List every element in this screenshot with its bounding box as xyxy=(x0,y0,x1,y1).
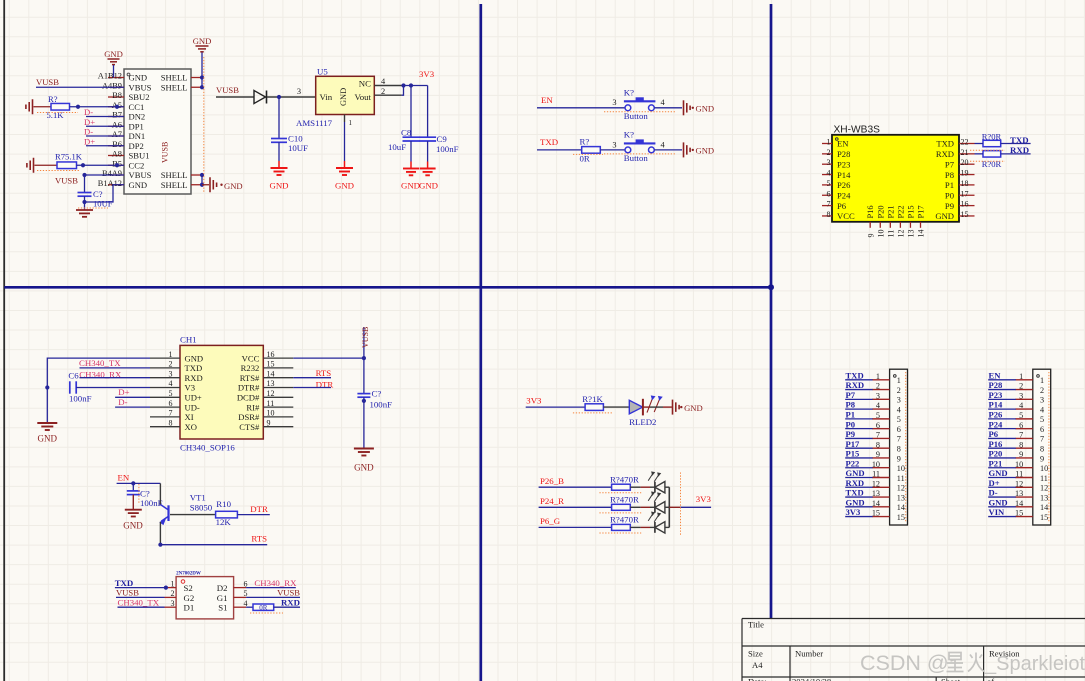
svg-text:GND: GND xyxy=(935,211,954,221)
svg-text:P1: P1 xyxy=(846,409,856,419)
ground below C10 xyxy=(278,161,280,168)
svg-text:P8: P8 xyxy=(945,170,954,180)
svg-text:P0: P0 xyxy=(846,419,856,429)
svg-text:EN: EN xyxy=(837,139,849,149)
svg-text:Number: Number xyxy=(795,649,823,659)
svg-text:P8: P8 xyxy=(846,400,856,410)
svg-text:8: 8 xyxy=(1019,440,1023,449)
transistor VT1 S8050 xyxy=(159,483,161,505)
svg-text:RXD: RXD xyxy=(936,149,954,159)
svg-text:12: 12 xyxy=(1015,479,1023,488)
wire SHELL top xyxy=(201,53,203,88)
connector P? header right body xyxy=(1033,369,1051,525)
svg-text:RLED2: RLED2 xyxy=(629,417,656,427)
svg-text:2: 2 xyxy=(171,589,175,598)
section divider horizontal xyxy=(4,286,771,289)
svg-text:GND: GND xyxy=(129,180,148,190)
svg-text:3V3: 3V3 xyxy=(846,507,861,517)
svg-text:P0: P0 xyxy=(945,190,954,200)
capacitor C10 10UF xyxy=(278,97,280,139)
svg-text:VIN: VIN xyxy=(989,507,1006,517)
svg-text:10: 10 xyxy=(267,409,275,418)
svg-text:16: 16 xyxy=(961,200,969,209)
compile marker under R?1K xyxy=(573,412,613,414)
wire base to R10 xyxy=(170,514,216,516)
svg-text:16: 16 xyxy=(267,350,275,359)
svg-text:VT1: VT1 xyxy=(190,493,206,503)
svg-text:D-: D- xyxy=(118,397,127,407)
capacitor C6 100nF xyxy=(69,381,71,393)
wire 3V3 to R? xyxy=(526,406,585,408)
svg-text:VBUS: VBUS xyxy=(129,170,152,180)
svg-text:3: 3 xyxy=(612,98,616,107)
svg-text:100nF: 100nF xyxy=(69,394,92,404)
svg-text:P14: P14 xyxy=(989,400,1004,410)
svg-text:P9: P9 xyxy=(945,201,954,211)
svg-text:D-: D- xyxy=(989,488,998,498)
wire D- to DN2 xyxy=(86,116,124,118)
connector P? header left body xyxy=(890,369,908,525)
svg-text:U5: U5 xyxy=(317,67,328,77)
LED common bus xyxy=(668,487,670,527)
svg-text:TXD: TXD xyxy=(846,370,864,380)
svg-text:K?: K? xyxy=(624,130,634,140)
svg-text:CH340_SOP16: CH340_SOP16 xyxy=(180,442,235,452)
svg-text:P22: P22 xyxy=(846,458,860,468)
wire U5 GND down xyxy=(344,122,346,161)
wire emitter to RTS xyxy=(160,544,267,546)
svg-text:DP1: DP1 xyxy=(129,121,144,131)
svg-text:GND: GND xyxy=(339,88,348,106)
ground below U5 xyxy=(344,161,346,168)
svg-text:G2: G2 xyxy=(184,593,195,603)
wire P24_R to resistor xyxy=(539,506,612,508)
svg-text:TXD: TXD xyxy=(540,137,558,147)
svg-text:P28: P28 xyxy=(989,380,1004,390)
LED (RGB) xyxy=(654,482,656,493)
Q? right pins 4-6 xyxy=(234,587,247,589)
svg-text:11: 11 xyxy=(267,399,275,408)
wire RTS# pin xyxy=(293,377,331,379)
svg-text:5: 5 xyxy=(169,389,173,398)
svg-text:Sheet: Sheet xyxy=(941,676,961,681)
svg-text:3: 3 xyxy=(612,140,616,149)
svg-text:9: 9 xyxy=(1040,454,1044,463)
svg-text:9: 9 xyxy=(267,418,271,427)
button K? body (TXD) xyxy=(625,147,631,153)
resistor R? 470R xyxy=(612,504,631,510)
svg-text:GND: GND xyxy=(419,181,438,191)
USB connector SHELL pins xyxy=(191,77,202,79)
button K? body xyxy=(625,105,631,111)
ground below VUSB cap xyxy=(354,448,374,450)
wire to button pin 3 xyxy=(537,107,625,109)
svg-text:B6: B6 xyxy=(112,140,122,149)
svg-text:SHELL: SHELL xyxy=(161,82,188,92)
svg-text:Vout: Vout xyxy=(355,92,372,102)
svg-text:2: 2 xyxy=(381,87,385,96)
svg-text:CH340_TX: CH340_TX xyxy=(118,597,160,607)
wire 3V3 rail xyxy=(402,85,428,87)
svg-text:P15: P15 xyxy=(846,449,860,459)
svg-text:10UF: 10UF xyxy=(93,199,113,209)
wire Vout jog to 3V3 rail xyxy=(402,86,404,96)
svg-text:P22: P22 xyxy=(896,205,905,218)
svg-text:5: 5 xyxy=(876,411,880,420)
svg-text:SHELL: SHELL xyxy=(161,73,188,83)
svg-text:GND: GND xyxy=(185,353,204,363)
svg-text:D+: D+ xyxy=(989,478,1000,488)
svg-text:4: 4 xyxy=(827,169,831,178)
wire RXD from module xyxy=(975,153,984,155)
svg-text:15: 15 xyxy=(897,513,905,522)
svg-text:5: 5 xyxy=(827,179,831,188)
svg-text:SBU2: SBU2 xyxy=(129,92,150,102)
svg-text:P24_R: P24_R xyxy=(540,496,564,506)
svg-text:7: 7 xyxy=(1019,431,1023,440)
svg-text:5: 5 xyxy=(897,415,901,424)
USB connector left pins xyxy=(108,77,124,79)
svg-text:C?: C? xyxy=(372,389,382,399)
svg-text:1: 1 xyxy=(827,138,831,147)
svg-text:2: 2 xyxy=(827,148,831,157)
svg-text:3V3: 3V3 xyxy=(526,396,542,406)
svg-text:RXD: RXD xyxy=(1010,145,1029,155)
wire resistor to LED xyxy=(630,506,640,508)
svg-text:Button: Button xyxy=(624,111,649,121)
svg-text:GND: GND xyxy=(123,521,143,531)
svg-text:P24: P24 xyxy=(989,419,1004,429)
wire ground to R7 xyxy=(35,164,58,166)
svg-text:C?: C? xyxy=(140,488,150,498)
svg-text:EN: EN xyxy=(989,370,1002,380)
svg-text:R?: R? xyxy=(48,94,58,104)
svg-text:4: 4 xyxy=(897,405,901,414)
svg-text:2: 2 xyxy=(169,360,173,369)
svg-text:R?470R: R?470R xyxy=(610,474,639,484)
svg-text:Date:: Date: xyxy=(748,676,767,681)
svg-text:2: 2 xyxy=(1040,386,1044,395)
title block frame xyxy=(742,619,1085,681)
wire ground to R? xyxy=(34,106,52,108)
svg-text:RTS: RTS xyxy=(251,533,267,543)
ground below C9 xyxy=(427,162,429,169)
wire LED to bus xyxy=(665,526,669,528)
USB connector J1 body xyxy=(124,69,191,194)
svg-text:GND: GND xyxy=(846,497,865,507)
svg-text:6: 6 xyxy=(897,425,901,434)
svg-text:TXD: TXD xyxy=(185,363,203,373)
svg-text:15: 15 xyxy=(872,509,880,518)
svg-text:VBUS: VBUS xyxy=(129,82,152,92)
svg-text:GND: GND xyxy=(354,463,374,473)
svg-text:P23: P23 xyxy=(837,159,850,169)
svg-text:P24: P24 xyxy=(837,190,851,200)
wire D- to UD- xyxy=(115,406,150,408)
svg-text:B1A12: B1A12 xyxy=(98,179,122,188)
XH-WB3S bottom pins 9-14 xyxy=(869,222,871,228)
compile marker under 0R xyxy=(250,612,283,614)
svg-text:GND: GND xyxy=(989,497,1008,507)
svg-text:GND: GND xyxy=(696,146,715,156)
svg-text:A6: A6 xyxy=(112,120,122,129)
svg-text:A4: A4 xyxy=(752,660,763,670)
svg-text:100nF: 100nF xyxy=(140,498,163,508)
wire R? to CC1 xyxy=(70,106,125,108)
svg-text:14: 14 xyxy=(1015,499,1023,508)
CH340 left pins 1-8 xyxy=(150,357,180,359)
earth ground at button xyxy=(683,100,685,115)
svg-text:8: 8 xyxy=(1040,444,1044,453)
LED arrows xyxy=(648,514,653,521)
U5 pin 4 NC xyxy=(374,85,401,87)
svg-text:P7: P7 xyxy=(846,390,856,400)
wire P26_B to resistor xyxy=(539,486,612,488)
svg-text:P21: P21 xyxy=(886,205,895,218)
svg-text:10uF: 10uF xyxy=(388,142,406,152)
svg-text:R?1K: R?1K xyxy=(582,394,603,404)
diode D1 xyxy=(254,91,266,104)
resistor R? 0R (TXD) xyxy=(983,140,1001,146)
compile marker vertical at RGB xyxy=(680,473,682,535)
ground below C8 xyxy=(410,162,412,169)
svg-text:9: 9 xyxy=(1019,450,1023,459)
svg-text:14: 14 xyxy=(267,369,275,378)
svg-text:1: 1 xyxy=(169,350,173,359)
LED (RGB) xyxy=(654,522,656,533)
resistor R? 470R xyxy=(612,524,631,530)
svg-text:2: 2 xyxy=(897,386,901,395)
svg-text:0R: 0R xyxy=(259,604,268,612)
svg-text:Size: Size xyxy=(748,649,763,659)
earth ground at R7 CC2 xyxy=(33,158,35,173)
wire VUSB to G2 xyxy=(116,596,165,598)
svg-text:4: 4 xyxy=(1040,405,1044,414)
svg-text:DN1: DN1 xyxy=(129,131,146,141)
svg-text:7: 7 xyxy=(876,431,880,440)
svg-text:C8: C8 xyxy=(401,128,412,138)
svg-text:A7: A7 xyxy=(112,130,122,139)
svg-text:100nF: 100nF xyxy=(370,399,393,409)
svg-text:12: 12 xyxy=(1040,484,1048,493)
svg-text:B8: B8 xyxy=(112,91,122,100)
svg-text:RTS: RTS xyxy=(316,368,332,378)
capacitor C? 10UF xyxy=(84,175,86,193)
resistor R10 12K xyxy=(216,511,238,518)
svg-text:2: 2 xyxy=(1019,382,1023,391)
LED RLED2 xyxy=(629,400,642,414)
CH340 right pins 9-16 xyxy=(263,357,293,359)
svg-text:15: 15 xyxy=(267,360,275,369)
resistor R7 5.1K xyxy=(57,162,77,169)
svg-text:P28: P28 xyxy=(837,149,850,159)
resistor R? 0R (RXD) xyxy=(246,606,253,608)
svg-text:SHELL: SHELL xyxy=(161,170,188,180)
svg-text:2N7002DW: 2N7002DW xyxy=(176,571,201,576)
svg-text:D1: D1 xyxy=(184,603,195,613)
svg-text:3: 3 xyxy=(1040,396,1044,405)
capacitor C8 10uF xyxy=(410,86,412,138)
svg-text:DTR: DTR xyxy=(250,504,268,514)
svg-text:1: 1 xyxy=(171,579,175,588)
compile marker under 470R xyxy=(599,492,641,494)
svg-text:10: 10 xyxy=(872,460,880,469)
svg-text:9: 9 xyxy=(866,234,875,238)
svg-text:B4A9: B4A9 xyxy=(102,169,122,178)
svg-text:13: 13 xyxy=(1040,493,1048,502)
svg-text:A4B9: A4B9 xyxy=(102,81,122,90)
wire button to ground (TXD) xyxy=(654,149,682,151)
svg-text:B7: B7 xyxy=(112,111,122,120)
svg-text:C6: C6 xyxy=(68,371,79,381)
wire R10 to DTR xyxy=(237,514,269,516)
svg-text:11: 11 xyxy=(872,470,880,479)
svg-text:of: of xyxy=(987,676,994,681)
wire P6_G to resistor xyxy=(539,526,612,528)
section divider vertical 2 xyxy=(770,4,773,619)
svg-text:13: 13 xyxy=(267,379,275,388)
earth ground at TXD button xyxy=(683,142,685,157)
svg-text:GND: GND xyxy=(335,181,354,191)
ground below C? xyxy=(76,209,93,211)
svg-text:S1: S1 xyxy=(218,603,227,613)
svg-text:C10: C10 xyxy=(288,134,303,144)
svg-text:C?: C? xyxy=(93,189,103,199)
svg-text:D+: D+ xyxy=(84,137,95,147)
power rail VUSB vertical xyxy=(363,327,365,394)
svg-text:P26: P26 xyxy=(837,180,851,190)
svg-text:P23: P23 xyxy=(989,390,1003,400)
svg-text:R?: R? xyxy=(580,136,590,146)
svg-text:P16: P16 xyxy=(866,205,875,218)
svg-text:3V3: 3V3 xyxy=(419,69,435,79)
svg-text:XI: XI xyxy=(185,412,194,422)
svg-text:VCC: VCC xyxy=(242,353,260,363)
svg-text:GND: GND xyxy=(269,181,288,191)
wire DTR# pin xyxy=(293,387,331,389)
svg-text:10: 10 xyxy=(897,464,905,473)
wire R? to RLED2 xyxy=(603,406,629,408)
svg-text:D+: D+ xyxy=(84,117,95,127)
wire GND pin B1A12 bend xyxy=(85,185,125,202)
wire CH340_TX to TXD pin xyxy=(80,367,151,369)
svg-text:P20: P20 xyxy=(989,449,1003,459)
svg-text:VUSB: VUSB xyxy=(361,327,370,348)
svg-text:P17: P17 xyxy=(917,205,926,218)
wire D+ to UD+ xyxy=(115,396,150,398)
svg-text:5: 5 xyxy=(1040,415,1044,424)
wire VBUS pin B4A9 xyxy=(85,174,125,176)
LED arrows xyxy=(648,474,653,481)
svg-text:6: 6 xyxy=(169,399,173,408)
ground below CH340 GND xyxy=(37,422,57,424)
svg-text:DSR#: DSR# xyxy=(238,412,260,422)
svg-text:DN2: DN2 xyxy=(129,112,146,122)
svg-text:C9: C9 xyxy=(437,134,448,144)
svg-text:TXD: TXD xyxy=(936,139,954,149)
svg-text:K?: K? xyxy=(624,88,634,98)
wire CH340_RX to RXD pin xyxy=(80,377,151,379)
svg-text:VUSB: VUSB xyxy=(116,588,139,598)
svg-text:GND: GND xyxy=(129,73,148,83)
svg-text:GND: GND xyxy=(401,181,420,191)
earth ground at RLED2 xyxy=(672,400,674,415)
svg-text:VUSB: VUSB xyxy=(55,176,78,186)
svg-text:11: 11 xyxy=(1040,474,1048,483)
svg-text:6: 6 xyxy=(1019,421,1023,430)
svg-text:P26_B: P26_B xyxy=(540,476,564,486)
svg-text:CC2: CC2 xyxy=(129,160,145,170)
svg-text:1: 1 xyxy=(876,372,880,381)
svg-text:R10: R10 xyxy=(216,499,231,509)
svg-text:6: 6 xyxy=(876,421,880,430)
svg-text:12: 12 xyxy=(897,484,905,493)
svg-text:19: 19 xyxy=(961,169,969,178)
svg-text:UD+: UD+ xyxy=(185,393,202,403)
svg-text:RXD: RXD xyxy=(846,380,865,390)
earth ground at SHELL xyxy=(202,184,209,186)
svg-text:10: 10 xyxy=(1015,460,1023,469)
svg-text:1: 1 xyxy=(1019,372,1023,381)
svg-text:12: 12 xyxy=(872,479,880,488)
resistor R? 1K xyxy=(585,404,603,411)
svg-text:4: 4 xyxy=(876,401,880,410)
wire RLED2 to ground xyxy=(643,406,650,408)
compile marker at EN cap xyxy=(138,484,140,503)
svg-text:UD-: UD- xyxy=(185,402,200,412)
svg-text:Title: Title xyxy=(748,620,764,630)
svg-text:CH340_RX: CH340_RX xyxy=(254,578,297,588)
svg-text:6: 6 xyxy=(1040,425,1044,434)
svg-text:CC1: CC1 xyxy=(129,102,145,112)
svg-text:9: 9 xyxy=(876,450,880,459)
wire LED to bus xyxy=(665,486,669,488)
svg-text:SHELL: SHELL xyxy=(161,180,188,190)
svg-text:G1: G1 xyxy=(217,593,228,603)
ground below EN cap xyxy=(125,509,142,511)
svg-text:8: 8 xyxy=(827,210,831,219)
wire D+ to DP2 xyxy=(86,145,124,147)
svg-text:VUSB: VUSB xyxy=(161,142,170,163)
wire G1 to VUSB xyxy=(246,596,300,598)
svg-text:P7: P7 xyxy=(945,159,955,169)
svg-text:GND: GND xyxy=(989,468,1008,478)
XH-WB3S right pins 15-22 xyxy=(959,143,975,145)
wire D2 to CH340_RX xyxy=(246,587,296,589)
svg-text:D2: D2 xyxy=(217,583,228,593)
svg-text:4: 4 xyxy=(1019,401,1023,410)
resistor R? 5.1K xyxy=(51,103,70,110)
svg-text:GND: GND xyxy=(38,434,58,444)
svg-text:CTS#: CTS# xyxy=(239,422,260,432)
resistor R? 470R xyxy=(612,484,631,490)
svg-text:11: 11 xyxy=(887,230,896,238)
svg-text:1: 1 xyxy=(349,119,353,127)
sheet left border line xyxy=(3,0,5,681)
Q? left pins 1-3 xyxy=(165,587,177,589)
svg-text:10: 10 xyxy=(1040,464,1048,473)
svg-text:SBU1: SBU1 xyxy=(129,151,150,161)
svg-text:RXD: RXD xyxy=(846,478,865,488)
svg-text:100nF: 100nF xyxy=(436,144,459,154)
wire VUSB to diode xyxy=(216,96,254,98)
svg-text:DCD#: DCD# xyxy=(237,393,260,403)
svg-text:S2: S2 xyxy=(184,583,193,593)
svg-text:8: 8 xyxy=(897,444,901,453)
earth ground at R? CC1 xyxy=(32,99,34,114)
svg-text:DP2: DP2 xyxy=(129,141,144,151)
svg-text:D+: D+ xyxy=(118,387,129,397)
